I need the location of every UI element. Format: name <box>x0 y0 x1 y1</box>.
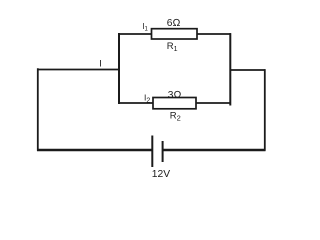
resistor R1 body <box>152 29 198 39</box>
wire: right exit from middle of right junction <box>230 69 266 71</box>
svg-text:R1: R1 <box>167 41 178 53</box>
node: right junction vertical joining both branches <box>229 33 231 105</box>
svg-text:I: I <box>99 59 102 70</box>
node: left junction vertical joining both branches <box>118 33 120 104</box>
wire: top branch right lead <box>197 33 231 35</box>
battery B1: long (left) plate <box>151 136 153 168</box>
resistor R2 body <box>153 98 196 109</box>
wire: bottom branch right lead <box>196 102 231 104</box>
wire: top branch left lead <box>118 33 152 35</box>
wire: bottom right segment from battery to right vertical <box>163 149 266 151</box>
wire: right outer vertical <box>264 69 266 151</box>
wire: bottom left segment to battery <box>37 149 152 151</box>
battery B1: short (right) plate <box>162 141 164 162</box>
svg-text:I1: I1 <box>142 22 148 33</box>
wire: bottom branch left lead <box>118 102 153 104</box>
svg-text:3Ω: 3Ω <box>168 90 182 101</box>
svg-text:12V: 12V <box>152 169 170 180</box>
svg-text:6Ω: 6Ω <box>167 18 181 29</box>
wire: left outer vertical <box>37 68 39 151</box>
wire: main horizontal from left loop to left junction <box>37 69 120 71</box>
svg-text:R2: R2 <box>170 110 181 122</box>
